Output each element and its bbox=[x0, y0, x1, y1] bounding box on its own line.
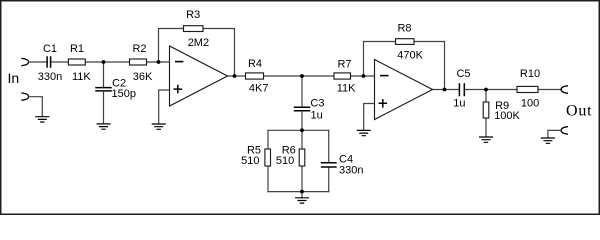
svg-text:11K: 11K bbox=[72, 71, 91, 83]
svg-text:470K: 470K bbox=[397, 50, 423, 62]
svg-text:R8: R8 bbox=[397, 22, 411, 34]
svg-text:1u: 1u bbox=[311, 109, 323, 121]
svg-text:330n: 330n bbox=[38, 71, 62, 83]
svg-text:330n: 330n bbox=[339, 165, 363, 177]
svg-text:2M2: 2M2 bbox=[188, 37, 209, 49]
svg-text:R1: R1 bbox=[70, 43, 84, 55]
svg-text:11K: 11K bbox=[337, 83, 356, 95]
svg-text:510: 510 bbox=[276, 155, 294, 167]
svg-text:R4: R4 bbox=[248, 58, 262, 70]
svg-text:R7: R7 bbox=[337, 59, 351, 71]
svg-text:R2: R2 bbox=[132, 43, 146, 55]
svg-text:C1: C1 bbox=[43, 43, 57, 55]
svg-text:In: In bbox=[8, 70, 20, 86]
svg-text:C3: C3 bbox=[310, 97, 324, 109]
svg-text:4K7: 4K7 bbox=[249, 83, 269, 95]
svg-text:36K: 36K bbox=[133, 71, 153, 83]
svg-text:Out: Out bbox=[566, 103, 592, 120]
svg-text:R10: R10 bbox=[520, 68, 540, 80]
svg-text:C5: C5 bbox=[456, 68, 470, 80]
svg-text:510: 510 bbox=[241, 155, 259, 167]
svg-text:C4: C4 bbox=[339, 153, 353, 165]
svg-text:1u: 1u bbox=[453, 98, 465, 110]
svg-text:100: 100 bbox=[521, 98, 539, 110]
svg-text:R3: R3 bbox=[186, 9, 200, 21]
svg-text:150p: 150p bbox=[112, 88, 136, 100]
svg-text:100K: 100K bbox=[494, 110, 520, 122]
